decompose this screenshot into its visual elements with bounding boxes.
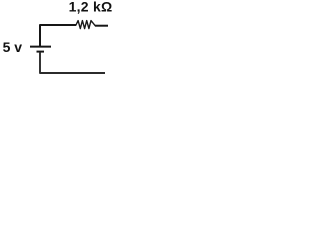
resistor R1 (zigzag) <box>76 21 95 29</box>
wire: left vertical + top horizontal from battery to resistor <box>40 25 76 46</box>
wire: bottom left vertical + bottom horizontal (open end at right) <box>40 52 105 73</box>
voltage source V1: short (bottom) plate <box>37 51 45 53</box>
voltage source V1: long (top) plate <box>30 46 51 48</box>
svg-text:1,2 kΩ: 1,2 kΩ <box>69 0 113 15</box>
wire: top right segment after resistor (open end) <box>95 25 108 27</box>
svg-text:5 v: 5 v <box>3 39 23 55</box>
